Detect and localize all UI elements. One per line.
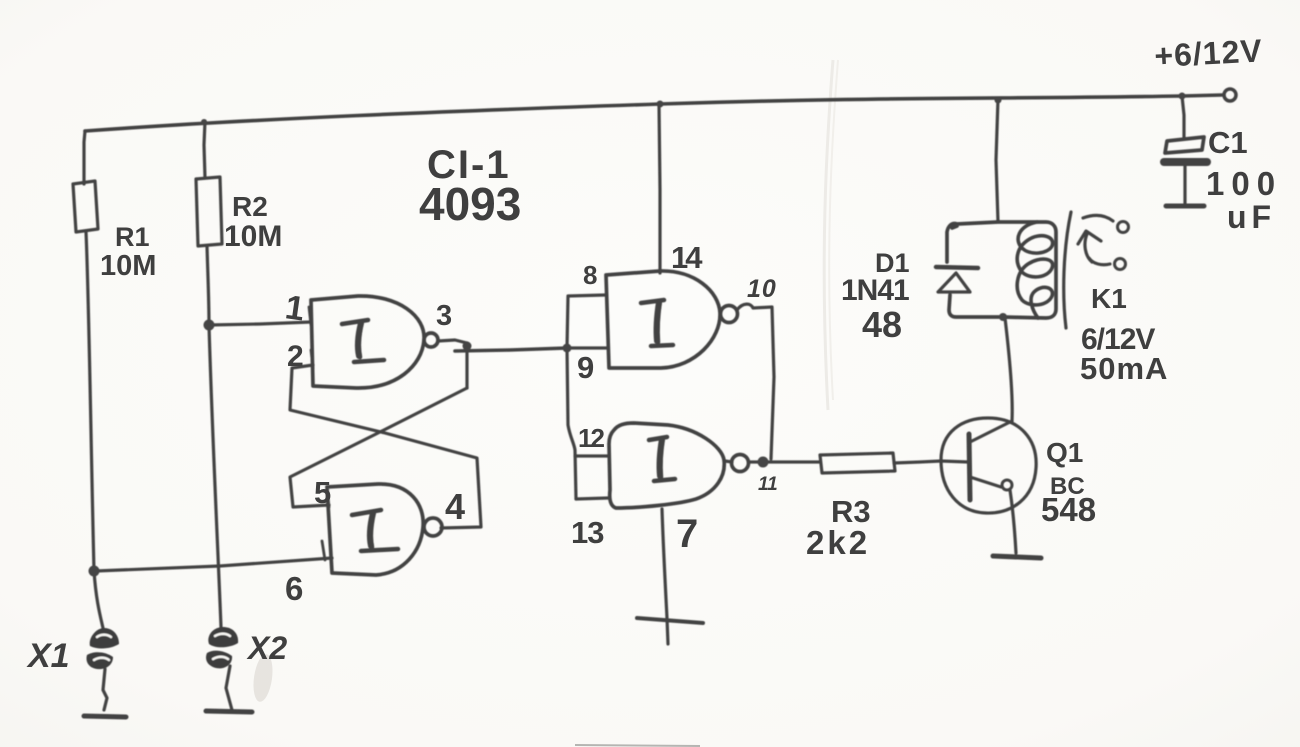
wire: R1 lower lead down to junction and X1: [86, 232, 103, 628]
gate U1a body: [311, 296, 424, 388]
ground X1: [84, 716, 126, 717]
wire: rail drop to R2: [204, 121, 205, 178]
ground C1: [1166, 204, 1204, 209]
wire: X1 to ground: [103, 669, 107, 710]
pin 2 entry tick: [311, 350, 313, 368]
svg-text:13: 13: [571, 515, 604, 550]
svg-text:4093: 4093: [419, 178, 521, 230]
relay contact NO circle: [1118, 222, 1129, 233]
gate U1c body: [606, 271, 720, 368]
svg-text:2k2: 2k2: [806, 524, 870, 561]
touch contact X1: [86, 628, 119, 669]
wire: pins 8/9 tie bracket: [567, 295, 606, 348]
svg-text:uF: uF: [1227, 199, 1276, 235]
resistor R1 body: [73, 181, 98, 232]
transistor Q1 circle: [941, 418, 1036, 513]
wire: collector up to relay: [1005, 318, 1012, 421]
terminal circle at rail end: [1224, 89, 1236, 101]
gate U1d body: [609, 423, 724, 508]
U1b output bubble pin 4: [424, 518, 442, 536]
svg-text:10M: 10M: [100, 250, 156, 282]
pin 1 entry tick: [309, 307, 311, 325]
svg-text:10M: 10M: [224, 220, 282, 253]
wire: R2 lower lead down through junction to X2: [207, 246, 221, 627]
wire: rail drop to C1: [1182, 96, 1184, 137]
wire: emitter down to ground: [1010, 490, 1016, 553]
svg-text:548: 548: [1041, 491, 1096, 528]
capacitor C1 top plate: [1165, 137, 1204, 153]
Q1 collector stroke: [970, 421, 1012, 442]
svg-text:100: 100: [1206, 165, 1282, 202]
svg-text:7: 7: [676, 512, 698, 556]
wire: vertical link to pins 12/13: [567, 348, 576, 499]
svg-text:9: 9: [577, 350, 594, 385]
svg-text:5: 5: [314, 475, 331, 510]
wire: X2 to ground: [226, 666, 232, 710]
resistor R3 body: [820, 453, 895, 473]
wire: pin6 long wire from R1 junction: [96, 558, 332, 571]
wire: node A junction R2 to pin 1: [209, 322, 311, 325]
resistor R2 body: [196, 177, 222, 246]
wire: pin11 node to R3: [749, 460, 820, 463]
wire: pin7 down from gate: [662, 509, 668, 644]
pin 6 entry tick: [322, 541, 325, 560]
svg-text:4: 4: [445, 486, 465, 527]
relay contact common line: [1083, 215, 1113, 221]
svg-text:12: 12: [578, 423, 604, 453]
svg-text:Q1: Q1: [1046, 437, 1083, 468]
touch contact X2: [206, 627, 238, 668]
svg-text:C1: C1: [1208, 125, 1248, 160]
svg-text:3: 3: [436, 300, 452, 332]
svg-text:6: 6: [285, 570, 303, 607]
bottom scan mark: [575, 745, 700, 746]
Q1 emitter stroke: [970, 477, 1001, 487]
svg-text:X1: X1: [26, 637, 70, 675]
wire: pin10 output going right and down: [737, 304, 774, 459]
wire: pin12 stub: [575, 454, 608, 457]
diode D1 bar: [936, 267, 978, 268]
wire: top +V rail: [85, 95, 1222, 131]
paper crease: [824, 60, 833, 410]
Q1 base lead: [941, 461, 968, 462]
ground X2: [206, 711, 252, 712]
U1b hysteresis mark: [352, 510, 398, 551]
U1c hysteresis mark: [641, 300, 673, 346]
wire: pin14 drop from rail: [659, 104, 660, 273]
capacitor C1 bottom plate: [1164, 158, 1207, 166]
ground pin7: [637, 618, 703, 623]
svg-text:10: 10: [747, 275, 777, 303]
U1d hysteresis mark: [649, 437, 675, 481]
gate U1b body: [327, 484, 423, 575]
relay coil: [1017, 222, 1052, 318]
U1d output bubble pin 11: [725, 461, 732, 462]
Q1 base bar: [969, 434, 970, 500]
U1a output bubble pin 3: [424, 333, 438, 347]
svg-text:11: 11: [758, 474, 778, 495]
svg-text:1N41: 1N41: [841, 274, 909, 307]
diode D1 triangle: [938, 273, 970, 292]
relay contact hook to NC circle: [1089, 258, 1110, 265]
wire: rail drop to R1: [84, 131, 85, 184]
relay K1 box: [947, 222, 1056, 318]
wire: R3 to Q1 base: [894, 461, 941, 463]
wire: pin3 to pins 8/9 horizontal: [455, 348, 567, 351]
wire: C1 lower lead: [1183, 166, 1186, 204]
svg-text:R2: R2: [232, 191, 268, 222]
svg-text:X2: X2: [246, 630, 287, 666]
svg-text:48: 48: [862, 304, 902, 345]
pin 5 entry tick: [327, 490, 329, 507]
svg-text:R1: R1: [115, 222, 150, 252]
wire: pin3 output node band: [438, 340, 467, 388]
svg-text:8: 8: [583, 260, 597, 290]
svg-text:50mA: 50mA: [1080, 351, 1168, 386]
U1a hysteresis mark: [342, 320, 384, 362]
ground Q1 emitter: [993, 556, 1041, 558]
svg-text:K1: K1: [1091, 283, 1127, 314]
wire: cross link pin4 to pin2: [290, 365, 481, 528]
relay contact arc: [1064, 212, 1071, 328]
wire: rail drop to relay K1: [996, 99, 998, 222]
svg-text:+6/12V: +6/12V: [1153, 32, 1263, 74]
Q1 emitter circle: [1002, 480, 1012, 490]
svg-text:14: 14: [671, 240, 703, 275]
U1c output bubble pin 10: [721, 306, 738, 323]
wire: pin13 stub: [576, 498, 608, 499]
svg-text:2: 2: [287, 340, 304, 373]
relay contact NC circle: [1115, 259, 1126, 270]
paper smudge: [251, 653, 276, 703]
relay contact arrow: [1078, 231, 1101, 262]
wire: cross link pin3 to pin5: [290, 388, 467, 507]
